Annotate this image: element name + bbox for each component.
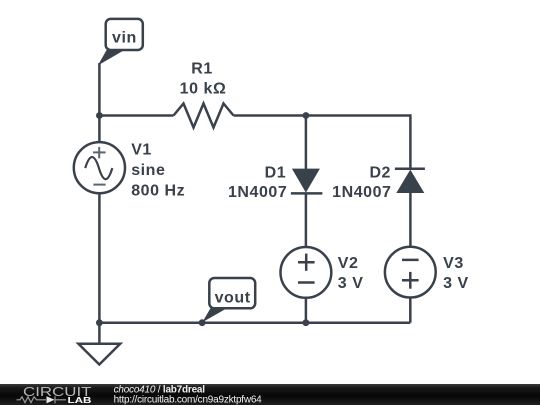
svg-text:V1: V1: [131, 142, 152, 159]
wire top node to V1 plus: [98, 116, 101, 143]
node ground junction: [96, 319, 103, 326]
node D1 top junction: [303, 112, 310, 119]
wire D2 anode to V3: [409, 193, 412, 247]
svg-text:3 V: 3 V: [443, 275, 469, 292]
svg-text:D2: D2: [369, 165, 391, 182]
svg-text:D1: D1: [265, 165, 287, 182]
wire top rail right (R1 to D2 corner): [234, 116, 411, 169]
voltage source V2: [281, 247, 332, 298]
wire V3 to bottom rail: [409, 298, 412, 323]
diode D1: [291, 169, 323, 194]
resistor R1: [174, 104, 234, 128]
node vin junction: [96, 112, 103, 119]
net flag vin: [98, 19, 143, 66]
node vout junction: [199, 319, 206, 326]
voltage source V1: [74, 142, 125, 193]
svg-text:10 kΩ: 10 kΩ: [180, 80, 227, 97]
svg-text:http://circuitlab.com/cn9a9zkt: http://circuitlab.com/cn9a9zktpfw64: [114, 394, 263, 405]
wire V2 minus to bottom rail: [305, 298, 308, 323]
node V2 bottom junction: [303, 319, 310, 326]
voltage source V3: [385, 247, 436, 298]
footer credit text: [114, 384, 263, 405]
ground: [78, 323, 120, 365]
wire D1 cathode to V2: [305, 193, 308, 247]
svg-text:3 V: 3 V: [338, 275, 364, 292]
svg-text:sine: sine: [131, 162, 165, 179]
svg-text:LAB: LAB: [68, 395, 92, 405]
footer bar: [0, 384, 540, 405]
wire bottom rail: [99, 321, 410, 324]
wire D1 anode drop: [305, 116, 308, 170]
svg-text:V3: V3: [443, 255, 464, 272]
svg-text:R1: R1: [191, 61, 213, 78]
wire top rail left (node to R1): [99, 114, 173, 117]
wire V1 minus to bottom rail: [98, 193, 101, 323]
svg-text:V2: V2: [338, 255, 359, 272]
svg-text:vin: vin: [112, 30, 137, 47]
svg-text:800 Hz: 800 Hz: [131, 182, 185, 199]
footer logo resistor-diode glyph: [17, 396, 67, 403]
svg-text:1N4007: 1N4007: [228, 184, 287, 201]
wire vin tail to top node: [98, 63, 101, 116]
net flag vout: [202, 278, 255, 322]
diode D2: [395, 169, 425, 193]
footer logo CIRCUIT: [17, 384, 92, 405]
svg-text:1N4007: 1N4007: [332, 184, 391, 201]
svg-text:vout: vout: [215, 290, 251, 307]
